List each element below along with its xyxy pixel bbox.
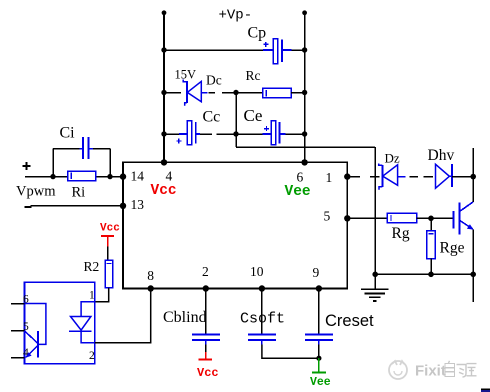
- opto pin 4 label: [23, 347, 29, 359]
- label R2: [84, 259, 100, 274]
- zener diode Dz: [379, 164, 406, 190]
- resistor Rge: [427, 231, 435, 259]
- optocoupler U2 body: [25, 282, 95, 364]
- pin 6 dot: [301, 159, 307, 165]
- capacitor Csoft: [248, 335, 276, 345]
- wire Ci top left: [53, 148, 80, 150]
- label Dhv: [428, 147, 455, 164]
- wire Ce to Vee rail: [286, 133, 305, 135]
- wire emitter rail: [472, 229, 474, 302]
- svg-text:Vee: Vee: [310, 376, 331, 389]
- diode Dhv: [436, 164, 453, 188]
- svg-text:Dz: Dz: [385, 151, 400, 166]
- junction COM node at Dc/Rc row: [233, 90, 238, 95]
- label 15V: [175, 68, 197, 82]
- svg-text:Vee: Vee: [285, 184, 311, 200]
- pin 9 label: [313, 265, 320, 280]
- label Cp: [248, 25, 267, 42]
- junction Ci right on input wire: [107, 174, 112, 179]
- svg-text:Vcc: Vcc: [151, 183, 177, 199]
- label Ce: [244, 106, 263, 125]
- svg-text:Csoft: Csoft: [240, 311, 285, 328]
- junction ground-bottom rail: [372, 272, 378, 278]
- svg-text:5: 5: [324, 209, 331, 224]
- opto pin 5 stub: [11, 330, 25, 332]
- svg-text:Cc: Cc: [203, 109, 221, 126]
- pin 6 label: [297, 170, 304, 185]
- opto pin 4 stub: [11, 357, 25, 359]
- power symbol Vcc (below Cblind): [197, 352, 219, 380]
- wire pin 2 to Cblind: [205, 289, 207, 335]
- svg-text:+Vp-: +Vp-: [219, 8, 253, 24]
- svg-text:Rge: Rge: [440, 240, 465, 257]
- svg-text:Dhv: Dhv: [428, 147, 455, 164]
- capacitor Creset: [305, 335, 333, 345]
- wire Ci top right: [93, 148, 110, 150]
- resistor Rc: [263, 88, 291, 98]
- wire COM node vertical drop: [235, 93, 237, 148]
- capacitor Cp: [263, 39, 292, 64]
- pin 8 label: [147, 268, 154, 283]
- label - input: [25, 206, 32, 208]
- junction Dc-Vcc rail: [161, 90, 166, 95]
- wire Dc row left: [164, 92, 181, 94]
- wire COM horizontal to emitter rail: [236, 146, 375, 148]
- wire pin 10 to Csoft: [261, 289, 263, 335]
- wire Ci left drop: [52, 149, 54, 177]
- pin 4 dot: [161, 159, 167, 165]
- svg-text:8: 8: [147, 268, 154, 283]
- label Rc: [246, 68, 261, 83]
- capacitor Ci: [80, 137, 94, 159]
- junction emitter-bottom rail: [470, 272, 476, 278]
- wire pin 5 to Rg: [347, 217, 387, 219]
- svg-text:Vpwm: Vpwm: [16, 184, 56, 200]
- svg-text:Creset: Creset: [325, 312, 374, 330]
- opto pin 1 label: [89, 290, 95, 302]
- label Cc: [203, 109, 221, 126]
- label + input: [23, 162, 31, 170]
- svg-text:2: 2: [89, 350, 95, 362]
- pin 10 dot: [259, 285, 265, 291]
- junction Rge-bottom rail: [428, 272, 434, 278]
- wire COM to Ce: [236, 133, 263, 135]
- op-amp U1 driver IC body: [123, 162, 347, 288]
- pin 4 label: [166, 169, 173, 184]
- wire Dhv to collector rail: [452, 176, 473, 178]
- resistor R2: [105, 260, 113, 288]
- wire Csoft to Vee node: [262, 345, 319, 359]
- svg-text:Rc: Rc: [246, 68, 261, 83]
- label Rg: [392, 225, 410, 242]
- svg-text:9: 9: [313, 265, 320, 280]
- wire Cp row right: [292, 49, 305, 51]
- wire gate node to Rge: [430, 218, 432, 230]
- junction Ce-Vee rail: [302, 131, 307, 136]
- label Creset: [325, 312, 374, 330]
- junction Cc-Vcc rail: [161, 131, 166, 136]
- opto LED: [69, 302, 95, 343]
- label Rge: [440, 240, 465, 257]
- wire Rg to gate: [417, 217, 453, 219]
- svg-text:Vcc: Vcc: [197, 366, 219, 380]
- wire emitter reference rail vertical: [374, 147, 376, 274]
- wire bottom rail: [375, 273, 473, 275]
- junction Cp-Vcc rail: [161, 47, 166, 52]
- wire R2 to opto pin 1: [95, 288, 109, 302]
- junction Csoft/Creset-Vee: [316, 356, 321, 361]
- wire Creset lower lead: [318, 345, 320, 359]
- svg-text:Rg: Rg: [392, 225, 410, 242]
- capacitor Ce: [263, 121, 286, 145]
- label Ri: [72, 185, 86, 201]
- capacitor Cc: [176, 121, 200, 145]
- wire collector rail: [472, 148, 474, 202]
- wire Vpwm+ to pin 14: [25, 176, 123, 178]
- node +Vp label: [219, 8, 253, 24]
- wire Vee rail (right vertical, pin 6 to -Vp): [302, 10, 307, 162]
- opto phototransistor: [25, 304, 46, 358]
- power symbol Vee (below Creset): [310, 358, 331, 389]
- label Dz: [385, 151, 400, 166]
- capacitor Cblind: [192, 335, 220, 345]
- junction Dhv-collector rail: [470, 174, 476, 180]
- watermark text CJK: [445, 361, 477, 377]
- junction Ci left on input wire: [50, 174, 55, 179]
- watermark corner square: [481, 389, 490, 392]
- svg-text:1: 1: [326, 170, 333, 185]
- label Csoft: [240, 311, 285, 328]
- pin 9 dot: [316, 285, 322, 291]
- svg-text:Ri: Ri: [72, 185, 86, 201]
- wire Rge to emitter rail: [430, 259, 432, 275]
- wire Ci right drop: [109, 149, 111, 177]
- svg-text:R2: R2: [84, 259, 100, 274]
- wire opto pin 2 to IC pin 8: [95, 289, 151, 343]
- svg-text:1: 1: [89, 290, 95, 302]
- svg-text:Ci: Ci: [60, 125, 76, 142]
- junction COM node at Cc/Ce row: [233, 131, 238, 136]
- wire Cp row left: [164, 49, 263, 51]
- ground: [361, 274, 389, 301]
- label Vcc (pin 4): [151, 183, 177, 199]
- wire dashed Dz to Dhv: [410, 176, 434, 178]
- pin 1 label: [326, 170, 333, 185]
- pin 5 label: [324, 209, 331, 224]
- power symbol Vcc (above R2): [100, 223, 120, 247]
- pin 5 dot: [344, 215, 350, 221]
- pin 14 dot: [120, 173, 126, 179]
- wire Cblind lower lead: [205, 345, 207, 353]
- opto pin 2 label: [89, 350, 95, 362]
- watermark text Fixit: [415, 363, 446, 380]
- resistor Rg: [387, 213, 416, 222]
- svg-text:Fixit: Fixit: [415, 363, 446, 380]
- wire dashed COM to Rc: [222, 92, 263, 94]
- label Dc: [206, 73, 222, 88]
- junction Cp-Vee rail: [302, 47, 307, 52]
- label Vee (pin 6): [285, 184, 311, 200]
- zener diode Dc 15V: [183, 80, 208, 106]
- pin 13 dot: [120, 203, 126, 209]
- wire pin 9 to Creset: [318, 289, 320, 335]
- junction gate node: [428, 216, 434, 222]
- opto pin 6 label: [23, 294, 29, 306]
- svg-text:Cp: Cp: [248, 25, 267, 42]
- wire Vcc to R2: [107, 247, 109, 261]
- opto pin 5 label: [23, 321, 29, 333]
- pin 10 label: [250, 264, 264, 279]
- svg-text:6: 6: [297, 170, 304, 185]
- resistor Ri: [68, 171, 96, 180]
- pin 14 label: [131, 169, 145, 184]
- wire dashed Cc to COM: [200, 133, 236, 135]
- svg-text:15V: 15V: [175, 68, 197, 82]
- label Cblind: [163, 309, 207, 326]
- pin 2 dot: [203, 285, 209, 291]
- junction Rc-Vee rail: [302, 90, 307, 95]
- label Vpwm: [16, 184, 56, 200]
- svg-text:Dc: Dc: [206, 73, 222, 88]
- svg-text:Cblind: Cblind: [163, 309, 207, 326]
- label Ci: [60, 125, 76, 142]
- pin 8 dot: [148, 285, 154, 291]
- wire Cc row left: [164, 133, 179, 135]
- pin 2 label: [202, 264, 209, 279]
- svg-text:14: 14: [131, 169, 145, 184]
- svg-text:10: 10: [250, 264, 264, 279]
- wire Vcc rail (left vertical, pin 4 to +Vp): [162, 10, 167, 162]
- svg-text:13: 13: [131, 197, 145, 212]
- wire Rc to Vee rail: [291, 92, 305, 94]
- svg-text:Vcc: Vcc: [100, 223, 120, 235]
- pin 1 dot: [344, 173, 350, 179]
- transistor Q1 IGBT: [453, 202, 473, 235]
- watermark logo circle: [389, 361, 407, 379]
- wire dashed Dc to COM node: [209, 92, 215, 94]
- pin 13 label: [131, 197, 145, 212]
- svg-text:4: 4: [166, 169, 173, 184]
- wire Vpwm- to pin 13: [31, 205, 124, 207]
- svg-text:Ce: Ce: [244, 106, 263, 125]
- wire dashed pin 1 to Dz: [351, 176, 380, 178]
- opto pin 6 stub: [11, 303, 25, 305]
- svg-text:2: 2: [202, 264, 209, 279]
